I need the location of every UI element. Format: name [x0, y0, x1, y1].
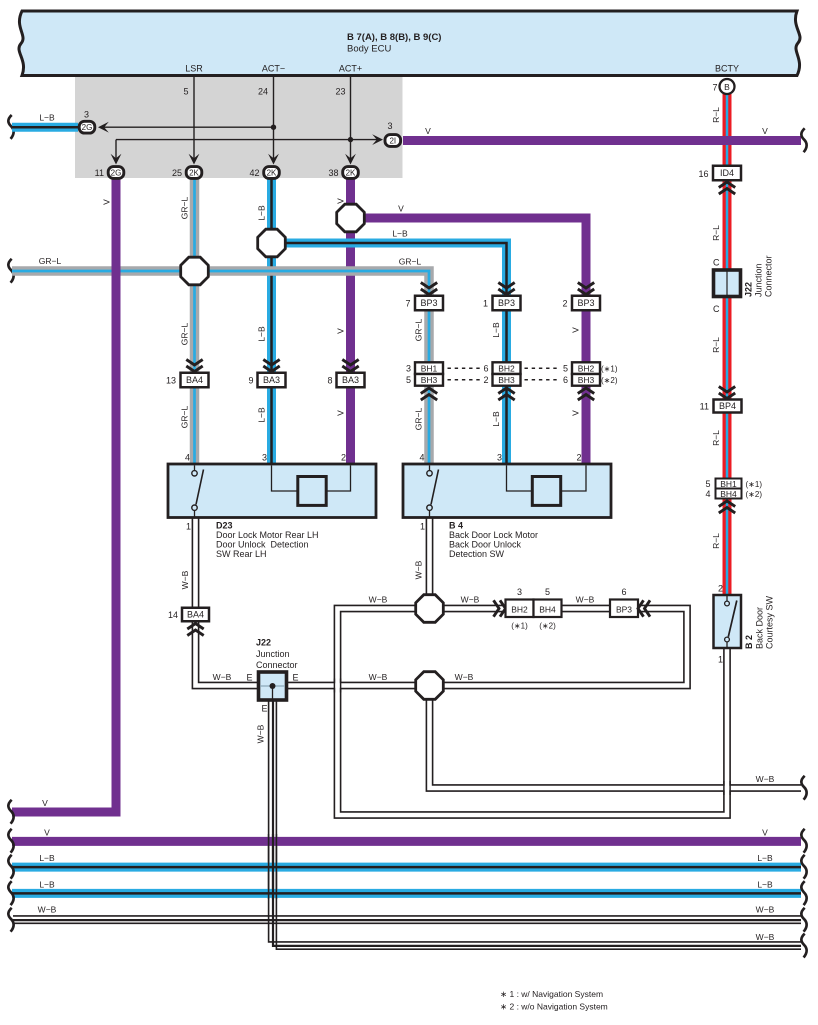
svg-text:BH3: BH3	[421, 375, 438, 385]
svg-text:W−B: W−B	[369, 595, 388, 605]
svg-text:V: V	[336, 328, 346, 334]
svg-text:W−B: W−B	[256, 724, 266, 743]
svg-text:L−B: L−B	[39, 879, 55, 889]
svg-text:ID4: ID4	[720, 168, 734, 178]
svg-text:W−B: W−B	[756, 774, 775, 784]
svg-text:W−B: W−B	[414, 560, 424, 579]
svg-text:4: 4	[705, 489, 710, 499]
svg-text:W−B: W−B	[369, 672, 388, 682]
svg-text:BP4: BP4	[719, 401, 736, 411]
svg-text:25: 25	[172, 168, 182, 178]
svg-text:7: 7	[405, 299, 410, 309]
svg-text:W−B: W−B	[180, 570, 190, 589]
svg-text:B 2: B 2	[744, 635, 754, 649]
svg-text:E: E	[293, 673, 299, 683]
svg-text:L−B: L−B	[257, 205, 267, 221]
svg-text:6: 6	[621, 587, 626, 597]
svg-text:2: 2	[562, 299, 567, 309]
svg-text:BP3: BP3	[577, 298, 594, 308]
svg-text:L−B: L−B	[392, 229, 408, 239]
svg-text:L−B: L−B	[257, 326, 267, 342]
svg-text:14: 14	[168, 610, 178, 620]
svg-text:D23: D23	[216, 521, 233, 531]
svg-text:R−L: R−L	[711, 107, 721, 123]
svg-text:V: V	[42, 798, 48, 808]
svg-text:V: V	[571, 327, 581, 333]
svg-text:Back Door Unlock: Back Door Unlock	[449, 540, 522, 550]
svg-text:1: 1	[186, 522, 191, 532]
svg-text:GR−L: GR−L	[180, 197, 190, 220]
svg-text:Body ECU: Body ECU	[347, 44, 391, 55]
svg-text:42: 42	[249, 168, 259, 178]
svg-text:V: V	[571, 410, 581, 416]
svg-text:2K: 2K	[267, 169, 277, 178]
svg-text:GR−L: GR−L	[39, 256, 62, 266]
svg-text:1: 1	[420, 522, 425, 532]
svg-text:R−L: R−L	[711, 337, 721, 353]
svg-text:B 7(A), B 8(B), B 9(C): B 7(A), B 8(B), B 9(C)	[347, 32, 441, 43]
svg-text:Back Door: Back Door	[755, 607, 765, 649]
svg-text:C: C	[713, 304, 720, 314]
svg-text:24: 24	[258, 87, 268, 97]
svg-text:BH1: BH1	[421, 363, 438, 373]
svg-text:9: 9	[248, 376, 253, 386]
svg-text:GR−L: GR−L	[180, 406, 190, 429]
svg-text:3: 3	[387, 121, 392, 131]
svg-text:SW Rear LH: SW Rear LH	[216, 549, 267, 559]
svg-text:BA3: BA3	[342, 375, 359, 385]
svg-text:23: 23	[335, 87, 345, 97]
svg-text:BH1: BH1	[720, 479, 737, 489]
svg-text:16: 16	[698, 169, 708, 179]
svg-text:2: 2	[718, 584, 723, 594]
svg-text:(∗2): (∗2)	[601, 376, 618, 385]
svg-text:5: 5	[406, 375, 411, 385]
svg-text:7: 7	[712, 83, 717, 93]
svg-text:11: 11	[700, 402, 709, 412]
svg-text:J22: J22	[744, 282, 754, 297]
svg-text:R−L: R−L	[711, 430, 721, 446]
svg-text:2I: 2I	[389, 137, 396, 146]
svg-text:BA4: BA4	[186, 375, 203, 385]
svg-text:V: V	[336, 198, 346, 204]
svg-text:1: 1	[718, 655, 723, 665]
svg-text:2G: 2G	[82, 123, 93, 132]
svg-text:V: V	[762, 827, 768, 837]
svg-text:W−B: W−B	[576, 595, 595, 605]
svg-text:BH3: BH3	[578, 375, 595, 385]
svg-text:Courtesy SW: Courtesy SW	[765, 595, 775, 649]
svg-text:BH2: BH2	[498, 363, 515, 373]
svg-text:(∗1): (∗1)	[601, 365, 618, 374]
svg-text:GR−L: GR−L	[414, 319, 424, 342]
svg-text:BP3: BP3	[498, 298, 515, 308]
svg-text:4: 4	[185, 453, 190, 463]
svg-text:B: B	[724, 82, 730, 92]
svg-text:BH3: BH3	[498, 375, 515, 385]
svg-text:3: 3	[517, 587, 522, 597]
svg-text:W−B: W−B	[461, 595, 480, 605]
svg-text:V: V	[762, 126, 768, 136]
svg-text:∗ 1 : w/ Navigation System: ∗ 1 : w/ Navigation System	[500, 989, 603, 999]
svg-text:ACT−: ACT−	[262, 64, 285, 74]
svg-text:V: V	[398, 204, 404, 214]
svg-text:BP3: BP3	[420, 298, 437, 308]
svg-text:L−B: L−B	[491, 411, 501, 427]
svg-text:L−B: L−B	[257, 407, 267, 423]
svg-text:(∗2): (∗2)	[539, 622, 556, 631]
svg-text:E: E	[261, 704, 267, 714]
svg-text:6: 6	[483, 363, 488, 373]
svg-text:L−B: L−B	[39, 853, 55, 863]
svg-text:2K: 2K	[346, 169, 356, 178]
svg-text:2: 2	[483, 375, 488, 385]
svg-text:11: 11	[95, 168, 104, 178]
svg-text:J22: J22	[256, 638, 271, 648]
svg-text:5: 5	[563, 363, 568, 373]
svg-text:38: 38	[328, 168, 338, 178]
svg-text:V: V	[425, 126, 431, 136]
svg-text:2: 2	[341, 453, 346, 463]
svg-text:Door Unlock Detection: Door Unlock Detection	[216, 540, 309, 550]
svg-text:BH4: BH4	[539, 605, 556, 615]
svg-text:Connector: Connector	[256, 660, 298, 670]
svg-text:W−B: W−B	[756, 932, 775, 942]
svg-text:Junction: Junction	[754, 263, 764, 297]
svg-text:6: 6	[563, 375, 568, 385]
svg-text:GR−L: GR−L	[399, 257, 422, 267]
svg-text:Door Lock Motor Rear LH: Door Lock Motor Rear LH	[216, 530, 319, 540]
svg-text:GR−L: GR−L	[180, 323, 190, 346]
svg-text:BH2: BH2	[511, 605, 528, 615]
svg-text:(∗2): (∗2)	[746, 490, 763, 499]
svg-text:C: C	[713, 258, 720, 268]
svg-text:3: 3	[262, 453, 267, 463]
svg-text:V: V	[102, 199, 112, 205]
svg-text:(∗1): (∗1)	[746, 480, 763, 489]
svg-text:8: 8	[327, 376, 332, 386]
svg-text:∗ 2 : w/o Navigation System: ∗ 2 : w/o Navigation System	[500, 1002, 608, 1012]
svg-text:B 4: B 4	[449, 521, 463, 531]
svg-text:13: 13	[166, 376, 176, 386]
svg-text:W−B: W−B	[38, 905, 57, 915]
svg-text:5: 5	[183, 87, 188, 97]
svg-text:BH4: BH4	[720, 489, 737, 499]
svg-text:V: V	[44, 827, 50, 837]
svg-text:GR−L: GR−L	[414, 408, 424, 431]
svg-text:2G: 2G	[111, 169, 122, 178]
svg-text:BH2: BH2	[578, 363, 595, 373]
svg-text:Back Door Lock Motor: Back Door Lock Motor	[449, 530, 538, 540]
svg-text:L−B: L−B	[491, 322, 501, 338]
svg-text:Junction: Junction	[256, 649, 290, 659]
svg-text:BP3: BP3	[616, 605, 632, 615]
svg-text:V: V	[336, 410, 346, 416]
svg-text:ACT+: ACT+	[339, 64, 362, 74]
svg-text:R−L: R−L	[711, 533, 721, 549]
svg-text:3: 3	[84, 110, 89, 120]
svg-text:5: 5	[705, 479, 710, 489]
svg-text:2: 2	[576, 453, 581, 463]
svg-text:BA3: BA3	[263, 375, 280, 385]
svg-text:R−L: R−L	[711, 225, 721, 241]
svg-text:4: 4	[419, 453, 424, 463]
svg-text:2K: 2K	[189, 169, 199, 178]
svg-text:Connector: Connector	[764, 255, 774, 297]
svg-text:W−B: W−B	[213, 672, 232, 682]
svg-text:L−B: L−B	[757, 853, 773, 863]
svg-text:1: 1	[483, 299, 488, 309]
svg-text:3: 3	[497, 453, 502, 463]
svg-text:E: E	[246, 673, 252, 683]
svg-text:W−B: W−B	[756, 905, 775, 915]
svg-text:L−B: L−B	[757, 879, 773, 889]
svg-text:(∗1): (∗1)	[511, 622, 528, 631]
svg-text:Detection SW: Detection SW	[449, 549, 505, 559]
svg-text:3: 3	[406, 363, 411, 373]
svg-text:BA4: BA4	[187, 610, 204, 620]
svg-text:L−B: L−B	[39, 113, 55, 123]
svg-text:W−B: W−B	[455, 672, 474, 682]
svg-text:LSR: LSR	[185, 64, 203, 74]
svg-text:BCTY: BCTY	[715, 64, 739, 74]
svg-text:5: 5	[545, 587, 550, 597]
